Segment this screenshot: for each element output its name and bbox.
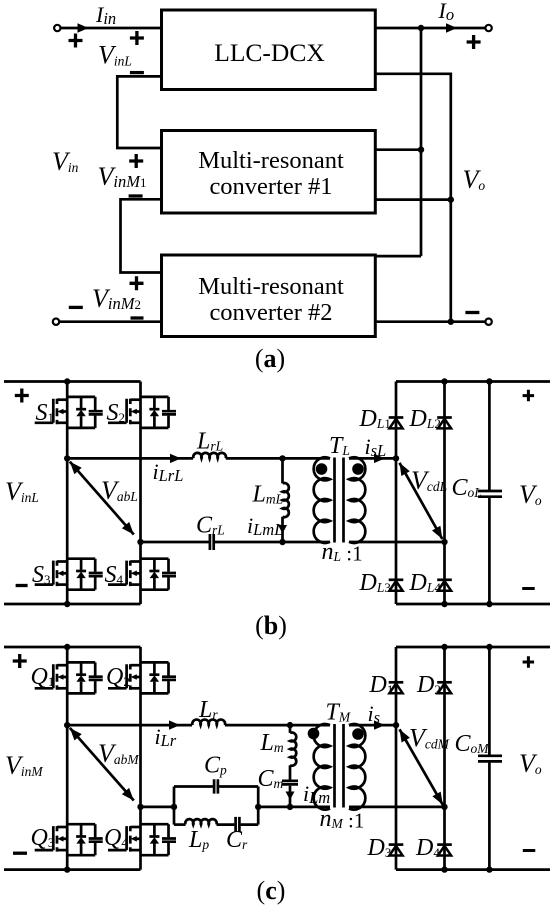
node a (c): bridge midpoint left [64, 722, 70, 728]
diode D3 [389, 845, 404, 856]
wire: (c) rectifier left leg [395, 647, 398, 870]
inductor LmL (magnetizing) [281, 458, 284, 483]
wire: (c) top rail right [396, 646, 550, 649]
minus: VinM2 [131, 316, 144, 319]
transformer TM core [335, 724, 344, 808]
svg-text:nM :1: nM :1 [320, 806, 365, 833]
transistor S2 (MOSFET with body diode and capacitor) [108, 397, 176, 428]
wire: tank to transformer primary bottom [258, 806, 330, 809]
wire: (c) bottom rail right [396, 868, 550, 871]
minus: VinM1 [129, 194, 143, 197]
node: (c) top rail / right rectifier leg [441, 644, 447, 650]
wire: node b to CrL [141, 541, 209, 544]
node a: bridge midpoint left [64, 455, 70, 461]
diode DL3 [389, 580, 404, 591]
inductor Lp [185, 819, 216, 824]
node d: rectifier midpoint right [441, 539, 447, 545]
output terminal (+) [485, 25, 491, 31]
voltage arrow VabL [70, 462, 134, 535]
wire: node b to tank [141, 806, 175, 809]
capacitor CoL [488, 382, 491, 605]
transformer TL polarity dot secondary [352, 463, 364, 475]
node: output bus junction top [418, 25, 424, 31]
wire: LmL to bottom with iLmL arrow [278, 517, 287, 542]
wire: tank right vertical [257, 787, 260, 825]
node: (c) top rail / output cap leg [486, 644, 492, 650]
plus: VinM1 [129, 154, 143, 168]
node c (c): rectifier midpoint left [393, 722, 399, 728]
wire: input to LLC-DCX with Iin arrow [61, 23, 162, 32]
input terminal (+) [54, 25, 60, 31]
transistor Q2 (MOSFET with body diode and capacitor) [108, 662, 176, 693]
input terminal (-) [53, 319, 59, 325]
voltage arrow VabM [70, 728, 134, 801]
plus: Vo (b) [523, 390, 535, 402]
wire: LLC-DCX lower output to return bus [375, 74, 451, 322]
wire: (c) bridge left leg [66, 647, 69, 870]
wire: (b) top rail left [4, 380, 141, 383]
node: bottom rail / left leg [64, 601, 70, 607]
plus: VinM rail polarity [13, 654, 27, 668]
plus: VinM2 [130, 276, 144, 290]
plus: VinL [130, 31, 144, 45]
diode D2 [437, 682, 452, 693]
plus: VinL rail polarity [15, 389, 29, 403]
transformer TL core [335, 458, 344, 543]
wire: tank top branch right [219, 785, 258, 788]
wire: (c) bridge right leg [139, 647, 142, 870]
svg-text:Multi-resonant: Multi-resonant [198, 147, 344, 174]
diode DL2 [437, 418, 452, 429]
voltage arrow VcdM [400, 729, 443, 805]
wire: node a to LrL with iLrL arrow [67, 454, 193, 463]
diode DL4 [437, 580, 452, 591]
output terminal (-) [485, 319, 491, 325]
wire: tank bottom branch left [174, 823, 186, 826]
minus: VinL rail polarity [16, 584, 28, 587]
node c: rectifier midpoint left [393, 455, 399, 461]
diode D4 [437, 845, 452, 856]
node: (c) bottom rail / output cap leg [486, 866, 492, 872]
node b (c): bridge midpoint right [137, 804, 143, 810]
wire: Lr to transformer primary top [225, 724, 330, 727]
node: bottom rail / right rectifier leg [441, 601, 447, 607]
node: (c) bottom rail / left leg [64, 866, 70, 872]
plus: Vo output polarity [467, 35, 481, 49]
wire: lower input [59, 320, 161, 323]
transistor Q1 (MOSFET with body diode and capacitor) [35, 662, 103, 693]
transformer TL primary winding [314, 457, 330, 543]
node: bottom rail / output cap leg [486, 601, 492, 607]
transistor S1 (MOSFET with body diode and capacitor) [35, 397, 103, 428]
node: (c) magnetizing branch bottom [287, 804, 293, 810]
capacitor Cp [214, 779, 218, 793]
block Multi-resonant converter #2 [162, 255, 376, 337]
wire: output bus vertical (LLC-DCX / MR outputs) [420, 28, 423, 256]
capacitor CoM [488, 647, 491, 870]
wire: LLC-DCX lower input to MR1 upper input [117, 76, 161, 148]
transistor Q4 (MOSFET with body diode and capacitor) [108, 824, 176, 855]
wire: (b) rectifier left leg [395, 382, 398, 605]
minus: Vo output polarity [465, 311, 479, 314]
wire: CrL to transformer primary bottom [215, 541, 330, 544]
transformer TM secondary winding [349, 724, 365, 810]
wire: secondary top to node c with isL arrow [349, 454, 396, 463]
node d (c): rectifier midpoint right [441, 804, 447, 810]
svg-text:(b): (b) [255, 611, 287, 640]
diode D1 [389, 682, 404, 693]
svg-text:(c): (c) [257, 876, 286, 905]
wire: Cm to bottom with iLm arrow [286, 786, 295, 807]
wire: tank left vertical [173, 787, 176, 825]
wire: secondary top to node c with is arrow [349, 720, 396, 729]
node: return bus junction MR1 [448, 196, 454, 202]
wire: (c) bottom rail left [4, 868, 141, 871]
wire: MR2 output top to bus [375, 255, 421, 258]
transformer TL polarity dot primary [316, 463, 328, 475]
wire: Lp to Cr [217, 823, 235, 826]
wire: MR1 output top to bus [375, 148, 421, 151]
node: bus junction MR1 [418, 147, 424, 153]
node b: bridge midpoint right [137, 539, 143, 545]
wire: output bottom [375, 320, 485, 323]
inductor Lr [192, 720, 225, 726]
svg-text:converter #2: converter #2 [209, 299, 332, 326]
wire: tank top branch left [174, 785, 213, 788]
node: top rail / output cap leg [486, 378, 492, 384]
svg-text:Multi-resonant: Multi-resonant [198, 273, 344, 300]
minus: Vo (c) [523, 849, 536, 852]
inductor Lm (magnetizing) [289, 725, 292, 733]
transformer TM polarity dot secondary [352, 728, 364, 740]
minus: Vo (b) [522, 587, 535, 590]
transformer TM polarity dot primary [308, 728, 320, 740]
minus: Vin input polarity [69, 306, 83, 309]
wire: (b) bridge left leg [66, 382, 69, 605]
block Multi-resonant converter #1 [162, 131, 376, 214]
svg-text:LLC-DCX: LLC-DCX [214, 38, 325, 67]
wire: LrL to transformer primary top [226, 457, 330, 460]
wire: secondary bottom to node d [349, 541, 445, 544]
svg-text:converter #1: converter #1 [209, 173, 332, 200]
capacitor Cr [236, 817, 240, 832]
node: (c) bottom rail / right rectifier leg [441, 866, 447, 872]
diode DL1 [389, 418, 404, 429]
wire: (b) rectifier right leg [443, 382, 446, 605]
plus: Vo (c) [523, 656, 535, 668]
wire: (b) bottom rail left [4, 603, 141, 606]
inductor LrL [193, 453, 226, 459]
transistor S4 (MOSFET with body diode and capacitor) [108, 559, 176, 590]
wire: Cr to tank right vertical [241, 823, 259, 826]
wire: MR1 lower output to return bus [375, 198, 451, 201]
voltage arrow VcdL [400, 463, 443, 539]
capacitor CrL [210, 534, 214, 550]
wire: (c) top rail left [4, 646, 141, 649]
node: tank right junction [255, 804, 261, 810]
transformer TL secondary winding [349, 457, 365, 543]
wire: (b) bridge right leg [139, 382, 142, 605]
node: return bus junction bottom [448, 319, 454, 325]
wire: (c) rectifier right leg [443, 647, 446, 870]
block LLC-DCX [162, 10, 376, 90]
svg-text:(a): (a) [255, 344, 285, 373]
node: tank left junction [171, 804, 177, 810]
minus: VinL [130, 71, 144, 74]
wire: (b) top rail right [396, 380, 550, 383]
transformer TM primary winding [314, 724, 330, 810]
node: (c) magnetizing branch top [287, 722, 293, 728]
node: top rail / right rectifier leg [441, 378, 447, 384]
transistor S3 (MOSFET with body diode and capacitor) [35, 559, 103, 590]
node: (c) top rail / left leg [64, 644, 70, 650]
wire: (b) bottom rail right [396, 603, 550, 606]
wire: output top with Io arrow [375, 23, 485, 32]
transistor Q3 (MOSFET with body diode and capacitor) [35, 824, 103, 855]
node: magnetizing branch bottom [279, 539, 285, 545]
node: top rail / left leg [64, 378, 70, 384]
wire: secondary bottom to node d [349, 806, 445, 809]
node: magnetizing branch top [279, 455, 285, 461]
minus: VinM rail polarity [13, 852, 27, 855]
plus: Vin input polarity [69, 34, 83, 48]
wire: node a to Lr with iLr arrow [67, 720, 192, 729]
capacitor Cm [289, 765, 292, 779]
wire: MR1 lower input to MR2 upper input [121, 199, 162, 272]
